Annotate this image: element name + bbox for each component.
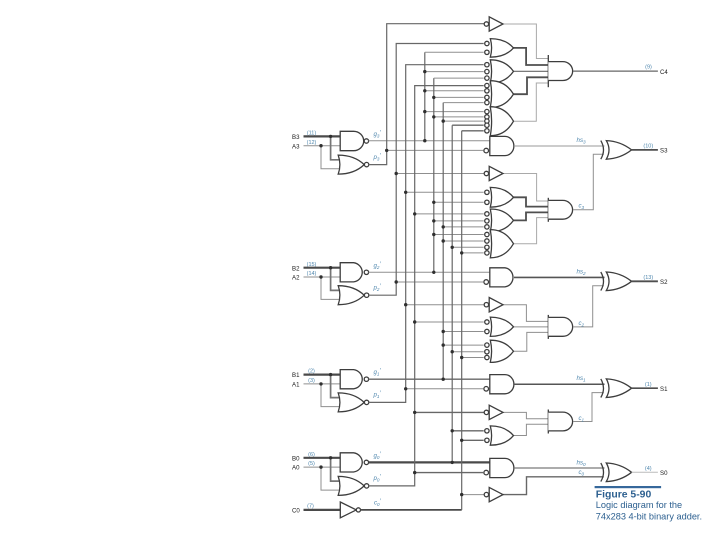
junction dot c0 prime at c0 inverter xyxy=(460,493,463,496)
wire g3 prime run xyxy=(369,140,490,142)
wire g2 prime branch to c3 OR4 xyxy=(434,234,484,236)
svg-text:(3): (3) xyxy=(308,378,315,384)
wire c3 to XOR S3 xyxy=(573,154,604,210)
wire p1 prime to bus xyxy=(369,65,484,403)
junction dot A1 xyxy=(319,382,322,385)
junction dot c0 prime at c2 OR3 xyxy=(460,356,463,359)
wire S2 output xyxy=(632,280,658,282)
wire g1 prime top branch to C4 OR4 xyxy=(443,102,484,104)
wire g1 prime branch to c2 OR3 xyxy=(443,344,484,346)
wire p0 prime branch to h0 AND xyxy=(415,472,484,474)
AND gate U-c2 output c2 xyxy=(547,315,549,339)
wire g3 prime branch to C4 OR4 xyxy=(425,90,484,92)
svg-text:A2: A2 xyxy=(292,275,300,282)
wire A0 branch to NOR xyxy=(321,467,342,490)
junction dot g1 prime at c3 OR3 xyxy=(442,225,445,228)
wire p0 prime branch to c1 inverter xyxy=(415,411,485,413)
junction dot B3 xyxy=(329,135,332,138)
wire c1 OR2 output to AND xyxy=(514,424,549,435)
wire A1 branch to NOR xyxy=(321,384,342,407)
wire c2 OR3 output to AND xyxy=(514,332,549,351)
svg-text:(5): (5) xyxy=(308,461,315,467)
wire hs0 to XOR S0 xyxy=(514,467,605,469)
junction dot g0 prime source tap xyxy=(451,461,454,464)
junction dot g3 prime source tap xyxy=(423,139,426,142)
wire g3 prime branch to C4 OR5 xyxy=(425,111,484,113)
wire A1 input xyxy=(304,383,341,385)
svg-text:(13): (13) xyxy=(643,275,653,281)
wire hs2 to XOR S2 xyxy=(514,276,605,278)
svg-text:(10): (10) xyxy=(643,144,653,150)
wire C4 OR2 output to AND xyxy=(514,48,549,65)
inverter C0 (produces c0 prime) xyxy=(340,502,356,518)
junction dot B2 xyxy=(329,266,332,269)
NOR gate p0 xyxy=(338,476,364,495)
wire c2 OR2 output to AND xyxy=(514,326,549,328)
wire hs3 to XOR S3 xyxy=(514,145,605,147)
wire g1 prime branch to c3 OR4 xyxy=(443,240,484,242)
svg-text:B0: B0 xyxy=(292,455,300,462)
wire B1 branch to NOR xyxy=(331,375,340,398)
wire S0 output xyxy=(632,471,658,473)
XOR gate S2 xyxy=(601,272,604,291)
wire A2 input xyxy=(304,276,341,278)
wire B0 input xyxy=(304,457,341,459)
junction dot p0 prime at c3 OR3 tap xyxy=(413,212,416,215)
NOR gate p1 xyxy=(338,393,364,412)
wire A3 branch to NOR xyxy=(321,146,342,169)
XOR gate S0 xyxy=(601,463,604,482)
svg-text:C0: C0 xyxy=(292,508,300,515)
svg-text:(9): (9) xyxy=(645,64,652,70)
wire g3 prime vertical bus xyxy=(424,52,426,140)
NOR gate p2 xyxy=(338,286,364,305)
wire g2 prime branch to c3 OR3 xyxy=(434,220,484,222)
junction dot g2 prime source tap xyxy=(432,271,435,274)
junction dot g0 prime at c3 OR4 xyxy=(451,246,454,249)
wire g1 prime branch to c2 OR2 xyxy=(443,331,484,333)
svg-text:S1: S1 xyxy=(660,386,668,393)
wire p0 prime branch to c3 OR3 xyxy=(415,213,484,215)
junction dot g3 prime at C4 OR5 xyxy=(423,110,426,113)
wire g0 prime branch to c3 OR4 xyxy=(452,246,484,248)
wire c2 inverter output to AND xyxy=(503,305,548,322)
svg-text:S2: S2 xyxy=(660,279,668,286)
wire c3 OR4 output to AND xyxy=(514,218,549,244)
svg-text:A1: A1 xyxy=(292,382,300,389)
wire c3 inverter output to AND xyxy=(503,174,548,202)
junction dot p0 prime at h0 tap xyxy=(413,471,416,474)
junction dot g1 prime at C4 OR5 xyxy=(442,119,445,122)
OR gate U-c3b 2-input xyxy=(490,187,513,207)
wire g2 prime branch to C4 OR4 xyxy=(434,96,484,98)
svg-text:B1: B1 xyxy=(292,372,300,379)
junction dot g1 prime source tap xyxy=(442,378,445,381)
svg-text:B3: B3 xyxy=(292,134,300,141)
wire g2 prime branch to C4 OR5 xyxy=(434,116,484,118)
wire c1 inverter output to AND xyxy=(503,412,548,418)
AND gate h3 (half sum) xyxy=(490,136,514,155)
wire g1 prime branch to c3 OR3 xyxy=(443,226,484,228)
wire g0 prime branch to c1 OR2 xyxy=(452,430,484,432)
AND gate h1 (half sum) xyxy=(490,375,514,394)
wire A2 branch to NOR xyxy=(321,277,342,299)
wire g0 prime top branch to C4 OR5 xyxy=(452,124,484,126)
wire S1 output xyxy=(632,387,658,389)
wire C4 OR4 output to AND xyxy=(514,77,549,94)
wire g1 prime run xyxy=(369,378,490,380)
junction dot g2 prime at C4 OR5 xyxy=(432,115,435,118)
junction dot g2 prime at c3 OR4 xyxy=(432,233,435,236)
junction dot A0 xyxy=(319,465,322,468)
svg-text:(12): (12) xyxy=(307,140,317,146)
svg-text:Figure 5-90: Figure 5-90 xyxy=(596,490,652,501)
junction dot c0 prime at c3 OR4 xyxy=(460,251,463,254)
wire g3 prime top branch to C4 OR2 xyxy=(425,51,484,53)
inverter U-c1a (p0) xyxy=(484,410,488,414)
junction dot p2 prime at c3 inverter tap xyxy=(395,172,398,175)
wire p2 prime branch to h2 AND xyxy=(396,281,483,283)
wire c0 prime branch to c1 OR2 xyxy=(462,439,484,441)
svg-text:Logic diagram for the: Logic diagram for the xyxy=(596,500,682,510)
svg-text:B2: B2 xyxy=(292,265,300,272)
OR gate U-c3d 4-input xyxy=(490,230,513,258)
wire c2 to XOR S2 xyxy=(573,286,604,327)
junction dot g0 prime at c2 OR3 xyxy=(451,350,454,353)
wire g2 prime run xyxy=(369,271,490,273)
wire p0 prime to bus xyxy=(369,86,484,486)
wire p2 prime to bus xyxy=(369,44,484,296)
junction dot p1 prime at c2 inverter tap xyxy=(404,303,407,306)
wire g0 prime vertical bus xyxy=(451,125,453,462)
XOR gate S1 xyxy=(601,379,604,398)
wire C4 OR5 output to AND xyxy=(514,83,549,121)
junction dot c0 prime at c1 OR2 xyxy=(460,439,463,442)
junction dot g1 prime at c2 OR3 xyxy=(442,343,445,346)
NAND gate g2 xyxy=(340,263,362,282)
inverter U-c2a (p1) xyxy=(484,303,488,307)
wire p1 prime branch to c2 inverter xyxy=(406,304,485,306)
wire c0 prime branch to c0 inverter xyxy=(462,494,485,496)
wire g0 prime branch to c2 OR3 xyxy=(452,351,484,353)
junction dot g2 prime at c3 OR2 xyxy=(432,201,435,204)
OR gate U-c1b 2-input xyxy=(490,426,513,445)
wire C4 OR3 output to AND xyxy=(514,70,549,72)
wire g3 prime branch to C4 OR3 xyxy=(425,71,484,73)
wire C0 input xyxy=(304,509,341,511)
wire c0 prime top branch to C4 OR5 xyxy=(462,130,484,132)
svg-text:C4: C4 xyxy=(660,69,668,76)
wire g1 prime branch to C4 OR5 xyxy=(443,120,484,122)
wire C4 output xyxy=(573,70,658,72)
junction dot g3 prime at C4 OR4 xyxy=(423,89,426,92)
wire c0 prime run xyxy=(361,509,462,511)
junction dot p3 prime xyxy=(385,149,388,152)
inverter U-c3a (p2) xyxy=(484,171,488,175)
AND gate U-C4 output C4 xyxy=(547,55,549,87)
junction dot g1 prime at c2 OR2 xyxy=(442,330,445,333)
wire A0 input xyxy=(304,466,341,468)
junction dot p1 prime at h1 tap xyxy=(404,387,407,390)
junction dot p1 prime at c3 OR2 tap xyxy=(404,191,407,194)
svg-text:(4): (4) xyxy=(645,466,652,472)
svg-text:A0: A0 xyxy=(292,465,300,472)
wire g2 prime branch to c3 OR2 xyxy=(434,201,484,203)
OR gate U-c2b 2-input xyxy=(490,317,513,336)
junction dot g2 prime at c3 OR3 xyxy=(432,219,435,222)
NAND gate g3 xyxy=(340,131,363,150)
wire S3 output xyxy=(632,149,658,151)
wire c0 prime branch to c3 OR4 xyxy=(462,252,484,254)
inverter U-C4a (p3) xyxy=(484,22,488,26)
wire c0 to XOR S0 xyxy=(503,477,604,495)
inverter U-c0 (c0) xyxy=(484,492,488,496)
wire p3 prime branch to h3 AND xyxy=(387,149,484,151)
svg-text:S3: S3 xyxy=(660,148,668,155)
wire g0 prime run xyxy=(369,461,490,463)
junction dot A3 xyxy=(319,144,322,147)
NAND gate g0 xyxy=(340,453,362,472)
wire p1 prime branch to c3 OR2 xyxy=(406,191,484,193)
OR gate U-C4d 4-input xyxy=(490,81,513,108)
wire B2 input xyxy=(304,267,341,269)
wire B3 input xyxy=(304,135,341,137)
wire p2 prime branch to c3 inverter xyxy=(396,173,484,175)
NOR gate p3 xyxy=(338,155,364,174)
junction dot g0 prime at c1 OR2 xyxy=(451,429,454,432)
junction dot g3 prime at C4 OR3 xyxy=(423,70,426,73)
junction dot A2 xyxy=(319,275,322,278)
wire p0 prime branch to c2 OR2 xyxy=(415,321,484,323)
svg-text:S0: S0 xyxy=(660,470,668,477)
wire c1 to XOR S1 xyxy=(573,393,604,422)
junction dot g1 prime at c3 OR4 xyxy=(442,239,445,242)
svg-text:A3: A3 xyxy=(292,143,300,150)
AND gate U-c3 output c3 xyxy=(547,198,549,222)
XOR gate S3 xyxy=(601,141,604,160)
wire g1 prime vertical bus xyxy=(442,103,444,380)
wire hs1 to XOR S1 xyxy=(514,383,605,385)
junction dot p0 prime at c1 inverter tap xyxy=(413,411,416,414)
svg-text:74x283 4-bit binary adder.: 74x283 4-bit binary adder. xyxy=(596,512,702,522)
wire p1 prime branch to h1 AND xyxy=(406,388,484,390)
OR gate U-c2c 3-input xyxy=(490,340,513,362)
wire c0 prime vertical bus xyxy=(461,131,463,510)
wire C4 inverter output to AND xyxy=(503,24,548,59)
wire g2 prime vertical bus xyxy=(433,78,435,272)
OR gate U-C4e 5-input xyxy=(490,107,513,136)
OR gate U-C4c 3-input xyxy=(490,60,513,83)
junction dot B0 xyxy=(329,456,332,459)
wire c3 OR2 output to AND xyxy=(514,197,549,206)
OR gate U-C4b 2-input xyxy=(490,39,513,58)
AND gate h0 (half sum) xyxy=(490,458,514,477)
wire B2 branch to NOR xyxy=(331,268,340,291)
junction dot p0 prime at c2 OR2 tap xyxy=(413,320,416,323)
junction dot B1 xyxy=(329,373,332,376)
svg-text:(7): (7) xyxy=(307,504,314,510)
OR gate U-c3c 3-input xyxy=(490,209,513,232)
wire A3 input xyxy=(304,145,341,147)
wire B3 branch to NOR xyxy=(331,136,340,159)
wire B1 input xyxy=(304,374,341,376)
wire g2 prime top branch to C4 OR3 xyxy=(434,77,484,79)
junction dot g2 prime at C4 OR4 xyxy=(432,96,435,99)
AND gate U-c1 output c1 xyxy=(547,410,549,434)
wire p3 prime to bus xyxy=(369,24,484,165)
svg-text:(14): (14) xyxy=(307,271,317,277)
wire c0 prime branch to c2 OR3 xyxy=(462,357,484,359)
junction dot p2 prime at h2 tap xyxy=(395,280,398,283)
wire c3 OR3 output to AND xyxy=(514,212,549,220)
svg-text:(1): (1) xyxy=(645,382,652,388)
AND gate h2 (half sum) xyxy=(490,268,513,287)
NAND gate g1 xyxy=(340,370,362,389)
figure caption rule xyxy=(595,486,662,488)
wire B0 branch to NOR xyxy=(331,458,340,481)
